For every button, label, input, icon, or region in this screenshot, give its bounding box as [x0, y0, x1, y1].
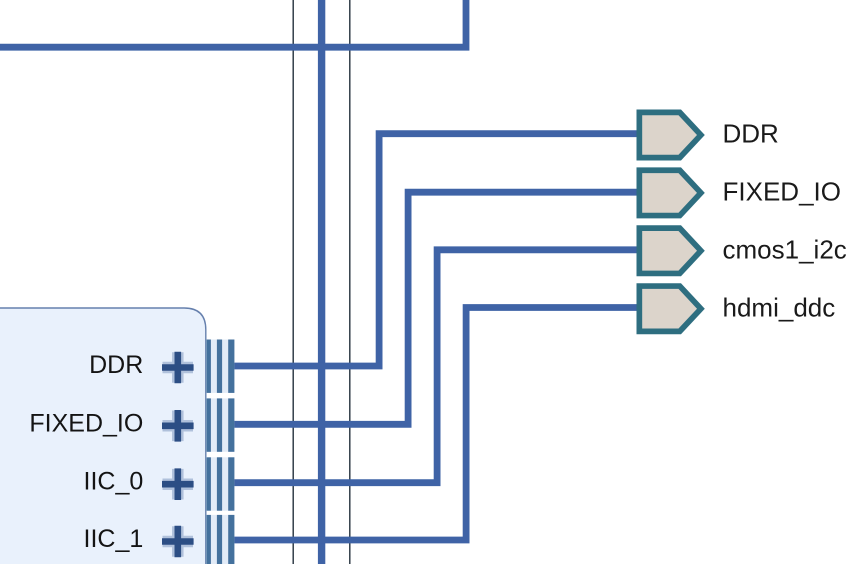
svg-text:IIC_0: IIC_0	[84, 468, 144, 496]
svg-text:IIC_1: IIC_1	[84, 525, 144, 553]
svg-text:FIXED_IO: FIXED_IO	[723, 177, 841, 207]
svg-text:hdmi_ddc: hdmi_ddc	[723, 292, 836, 322]
svg-text:DDR: DDR	[89, 351, 143, 379]
svg-text:FIXED_IO: FIXED_IO	[29, 409, 143, 437]
svg-text:cmos1_i2c: cmos1_i2c	[723, 234, 847, 264]
svg-text:DDR: DDR	[723, 119, 779, 149]
